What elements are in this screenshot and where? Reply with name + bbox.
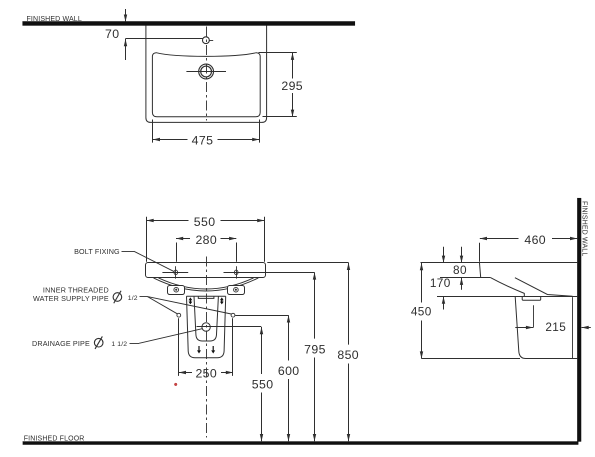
svg-text:450: 450 xyxy=(411,304,432,318)
label BOLT FIXING with leader xyxy=(74,247,174,272)
svg-text:BOLT FIXING: BOLT FIXING xyxy=(74,247,120,256)
vertical centerline (plan view) xyxy=(206,27,208,121)
label FINISHED WALL (right, rotated) xyxy=(581,201,588,256)
extension line faucet-hole level xyxy=(125,38,203,40)
bowl underside curve outer (side) xyxy=(491,278,525,297)
finished wall (right, side view) xyxy=(577,198,581,442)
pedestal inner cavity U (front) xyxy=(194,296,218,341)
bolt fixing hole left xyxy=(162,266,188,278)
drain crosshair / extension to 550 dim xyxy=(197,326,262,328)
svg-text:215: 215 xyxy=(545,320,566,334)
svg-text:600: 600 xyxy=(278,364,300,378)
dimension 795 vertical (floor to bolts) xyxy=(304,272,326,441)
basin front edge (side) xyxy=(480,263,481,278)
extension supply to 600 dim xyxy=(235,315,288,317)
pedestal back edge (side view) xyxy=(572,297,574,358)
extension pedestal bottom to 450 dim xyxy=(422,358,521,360)
bolt fixing hole right with extension line to 795 dim xyxy=(224,266,315,278)
water supply pipe hole left xyxy=(177,313,181,317)
dimension 170 (basin depth, side) xyxy=(430,247,451,310)
dimension 215 (wall to drain, side) xyxy=(515,305,591,334)
svg-text:WATER SUPPLY PIPE: WATER SUPPLY PIPE xyxy=(33,294,109,303)
finished wall (top, plan view) xyxy=(23,21,356,25)
dimension 600 vertical (floor to supply) xyxy=(278,315,300,441)
svg-text:460: 460 xyxy=(524,233,546,247)
label DRAINAGE PIPE dia 1 1/2 with leader xyxy=(32,329,203,349)
basin top line (side view, extends to 450 dim) xyxy=(421,262,578,264)
basin rim (front view) xyxy=(146,263,266,278)
pedestal top line (side view) xyxy=(437,296,577,298)
trap notch (side view) xyxy=(522,297,541,301)
svg-text:FINISHED WALL: FINISHED WALL xyxy=(581,201,588,256)
half pedestal outline (front) xyxy=(187,296,226,358)
svg-text:850: 850 xyxy=(337,348,359,362)
svg-text:295: 295 xyxy=(281,79,303,93)
pedestal profile (side view) xyxy=(515,297,577,359)
dimension 80 (rim thickness, side) xyxy=(453,247,467,290)
fixing arrow up-down right (bold) xyxy=(220,297,224,304)
drain arrow down right (bold) xyxy=(211,346,215,354)
fixing arrow up-down left (bold) xyxy=(189,297,193,304)
svg-text:475: 475 xyxy=(192,134,214,148)
dimension 850 vertical (floor to rim) xyxy=(337,263,359,441)
svg-text:1 1/2: 1 1/2 xyxy=(111,341,127,348)
bowl underside arc outer (front) xyxy=(154,278,259,291)
red reference dot xyxy=(174,383,177,386)
svg-text:FINISHED WALL: FINISHED WALL xyxy=(27,16,82,23)
label INNER THREADED WATER SUPPLY PIPE dia 1/2 with leaders xyxy=(33,285,231,314)
svg-text:70: 70 xyxy=(105,27,119,41)
svg-text:550: 550 xyxy=(252,377,274,391)
drain horizontal centerline (plan) xyxy=(186,71,226,73)
svg-text:795: 795 xyxy=(304,342,326,356)
rim bottom lip line (side) xyxy=(440,277,491,279)
svg-text:DRAINAGE PIPE: DRAINAGE PIPE xyxy=(32,339,90,348)
basin bowl (plan view) xyxy=(152,53,260,117)
basin outer rim (plan view) xyxy=(146,26,267,123)
svg-text:550: 550 xyxy=(194,215,216,229)
svg-text:1/2: 1/2 xyxy=(128,295,138,302)
dimension 70 (wall to faucet hole) xyxy=(105,9,127,60)
svg-text:250: 250 xyxy=(195,367,217,381)
label FINISHED WALL (top) xyxy=(27,16,82,23)
svg-text:FINISHED FLOOR: FINISHED FLOOR xyxy=(24,436,85,443)
dimension 550 (overall width, front) xyxy=(147,215,265,262)
dimension 460 (wall to basin front) xyxy=(480,233,578,262)
dimension 450 (basin+pedestal height, side) xyxy=(411,263,432,359)
finished floor line xyxy=(23,441,579,444)
bowl underside slope inner (side) xyxy=(515,278,573,297)
vertical centerline (front view) xyxy=(206,257,208,438)
trap notch (front pedestal top) xyxy=(198,296,214,298)
bowl underside arc inner (front) xyxy=(159,278,254,289)
svg-text:170: 170 xyxy=(430,276,451,290)
svg-text:280: 280 xyxy=(195,233,217,247)
dimension 250 (supply spacing) xyxy=(179,318,234,380)
wall bracket left (front) xyxy=(168,286,185,295)
dimension 280 (bolt spacing, front) xyxy=(176,233,237,262)
extension rim top to 850 dim xyxy=(267,262,348,264)
faucet hole (plan view) xyxy=(203,37,214,44)
drain arrow down left (bold) xyxy=(197,346,201,354)
wall bracket right (front) xyxy=(228,286,245,295)
dimension 295 (bowl depth, plan) xyxy=(259,53,304,117)
label FINISHED FLOOR xyxy=(24,436,85,443)
drainage pipe hole (front) xyxy=(202,323,210,331)
dimension 550 vertical (floor to drain) xyxy=(252,327,274,441)
svg-text:80: 80 xyxy=(453,263,467,277)
water supply pipe hole right xyxy=(231,313,235,317)
drain with overflow (plan view) xyxy=(199,64,214,79)
dimension 475 (bowl width, plan) xyxy=(153,120,260,148)
